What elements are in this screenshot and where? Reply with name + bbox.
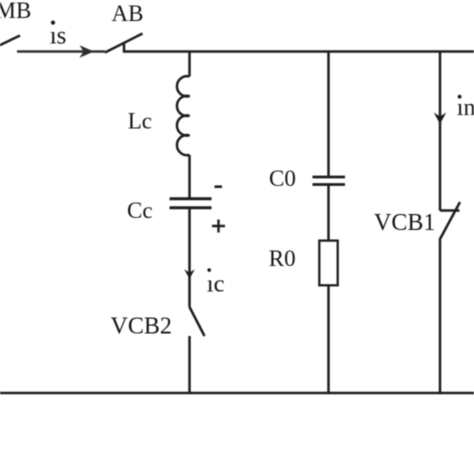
resistor R0 body — [319, 241, 337, 286]
wire R0 to bottom bus — [327, 285, 330, 393]
wire Lc to Cc — [188, 155, 191, 198]
capacitor C0 bottom plate — [313, 183, 346, 186]
svg-text:Cc: Cc — [127, 198, 153, 223]
wire branch1 top drop — [188, 52, 191, 77]
breaker VCB1 blade — [440, 202, 461, 240]
wire C0 to R0 — [327, 186, 330, 242]
dot of i (is) — [51, 21, 55, 25]
svg-text:VCB2: VCB2 — [111, 314, 172, 340]
arrow is (current direction) — [80, 45, 95, 58]
dot of i (in) — [458, 95, 462, 99]
wire branch3 top drop — [439, 52, 442, 211]
svg-text:VCB1: VCB1 — [374, 210, 435, 236]
wire top bus left segment — [17, 50, 105, 53]
svg-text:ıs: ıs — [50, 23, 67, 50]
svg-text:MB: MB — [0, 0, 31, 23]
capacitor Cc top plate — [170, 197, 212, 200]
capacitor C0 top plate — [313, 176, 346, 179]
capacitor Cc bottom plate — [170, 206, 212, 209]
svg-text:AB: AB — [112, 1, 144, 26]
breaker VCB2 blade — [190, 307, 205, 336]
switch AB fixed contact tick — [123, 43, 126, 53]
wire Cc down with current arrow — [188, 209, 191, 307]
wire VCB1 to bottom bus — [439, 240, 442, 393]
wire bottom bus — [0, 392, 474, 395]
svg-text:C0: C0 — [269, 166, 296, 191]
svg-text:ın: ın — [457, 95, 474, 121]
wire branch2 top drop — [327, 52, 330, 178]
switch AB blade — [105, 34, 143, 53]
arrow ic (current direction) — [184, 269, 195, 279]
polarity plus of Cc — [212, 220, 225, 233]
inductor Lc — [177, 76, 190, 155]
breaker VCB1 fixed contact — [440, 209, 460, 212]
switch MB blade — [0, 36, 20, 49]
svg-text:Lc: Lc — [128, 109, 152, 134]
dot of i (ic) — [207, 268, 211, 272]
svg-text:R0: R0 — [269, 246, 296, 271]
arrow in (current direction) — [434, 113, 446, 124]
wire VCB2 to bottom bus — [188, 336, 191, 393]
svg-text:ıc: ıc — [207, 271, 225, 298]
polarity minus of Cc — [215, 185, 223, 188]
wire top bus right segment — [123, 50, 474, 53]
